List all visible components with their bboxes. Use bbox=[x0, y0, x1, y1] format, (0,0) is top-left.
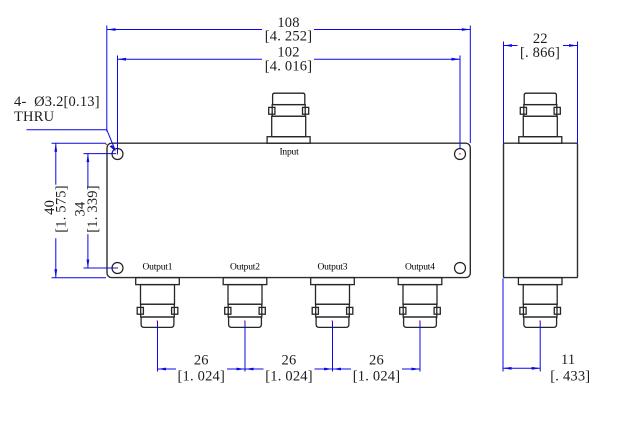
dimension 40 arrows bbox=[54, 143, 57, 278]
dimension 34 lines bbox=[84, 154, 117, 268]
svg-text:26: 26 bbox=[194, 353, 209, 369]
dimension 102 lines bbox=[118, 56, 461, 154]
input connector (front view, top) bbox=[267, 93, 310, 143]
svg-text:26: 26 bbox=[369, 353, 384, 369]
side view top connector bbox=[519, 93, 562, 143]
dimension 22 arrows bbox=[504, 44, 578, 47]
svg-text:[4. 252]: [4. 252] bbox=[265, 29, 313, 45]
svg-text:Input: Input bbox=[279, 147, 299, 157]
dimension 26 (first) arrows bbox=[158, 368, 254, 371]
dimension 40 lines bbox=[52, 143, 107, 278]
svg-text:[. 433]: [. 433] bbox=[550, 368, 590, 384]
dimension 26 (first) lines bbox=[158, 321, 246, 371]
leader line for hole callout bbox=[27, 130, 115, 149]
svg-text:26: 26 bbox=[282, 353, 297, 369]
dimension 22 lines bbox=[504, 42, 578, 144]
svg-text:[1. 024]: [1. 024] bbox=[353, 369, 401, 385]
dimension 26 (third) arrows bbox=[412, 368, 421, 371]
hole bottom-left bbox=[112, 263, 123, 274]
dimension 102 arrows bbox=[118, 58, 461, 61]
svg-text:Output4: Output4 bbox=[405, 262, 435, 272]
dimension 108 lines bbox=[107, 26, 471, 144]
dimension 26 (second) lines bbox=[245, 321, 333, 371]
red definition points bbox=[106, 144, 541, 322]
svg-text:THRU: THRU bbox=[14, 109, 55, 125]
output connector 2 bbox=[223, 278, 267, 328]
dimension 11 lines bbox=[503, 279, 540, 372]
svg-text:4- Ø3.2[0.13]: 4- Ø3.2[0.13] bbox=[14, 94, 100, 110]
hole top-right bbox=[455, 149, 466, 160]
svg-text:[1. 339]: [1. 339] bbox=[85, 185, 101, 233]
side body outline bbox=[504, 143, 578, 277]
dimension 108 arrows bbox=[107, 28, 470, 31]
side view bottom connector bbox=[518, 278, 562, 328]
svg-text:[1. 024]: [1. 024] bbox=[178, 369, 226, 385]
dimension 11 arrows bbox=[503, 367, 540, 370]
svg-text:[1. 024]: [1. 024] bbox=[265, 369, 313, 385]
svg-text:11: 11 bbox=[561, 352, 575, 368]
svg-text:[1. 575]: [1. 575] bbox=[53, 185, 69, 233]
output connector 4 bbox=[398, 278, 442, 328]
svg-text:[. 866]: [. 866] bbox=[520, 45, 560, 61]
hole bottom-right bbox=[455, 263, 466, 274]
svg-text:Output3: Output3 bbox=[318, 262, 348, 272]
dimension 26 (third) lines bbox=[333, 321, 421, 371]
svg-text:Output2: Output2 bbox=[230, 262, 260, 272]
svg-text:Output1: Output1 bbox=[143, 262, 173, 272]
output connector 3 bbox=[311, 278, 355, 328]
hole top-left bbox=[112, 149, 123, 160]
dimension 34 arrows bbox=[87, 154, 90, 268]
output connector 1 bbox=[136, 278, 180, 328]
leader arrow bbox=[110, 145, 117, 152]
svg-text:[4. 016]: [4. 016] bbox=[265, 59, 313, 75]
front body outline bbox=[107, 143, 470, 277]
dimension 26 (second) arrows bbox=[324, 368, 341, 371]
